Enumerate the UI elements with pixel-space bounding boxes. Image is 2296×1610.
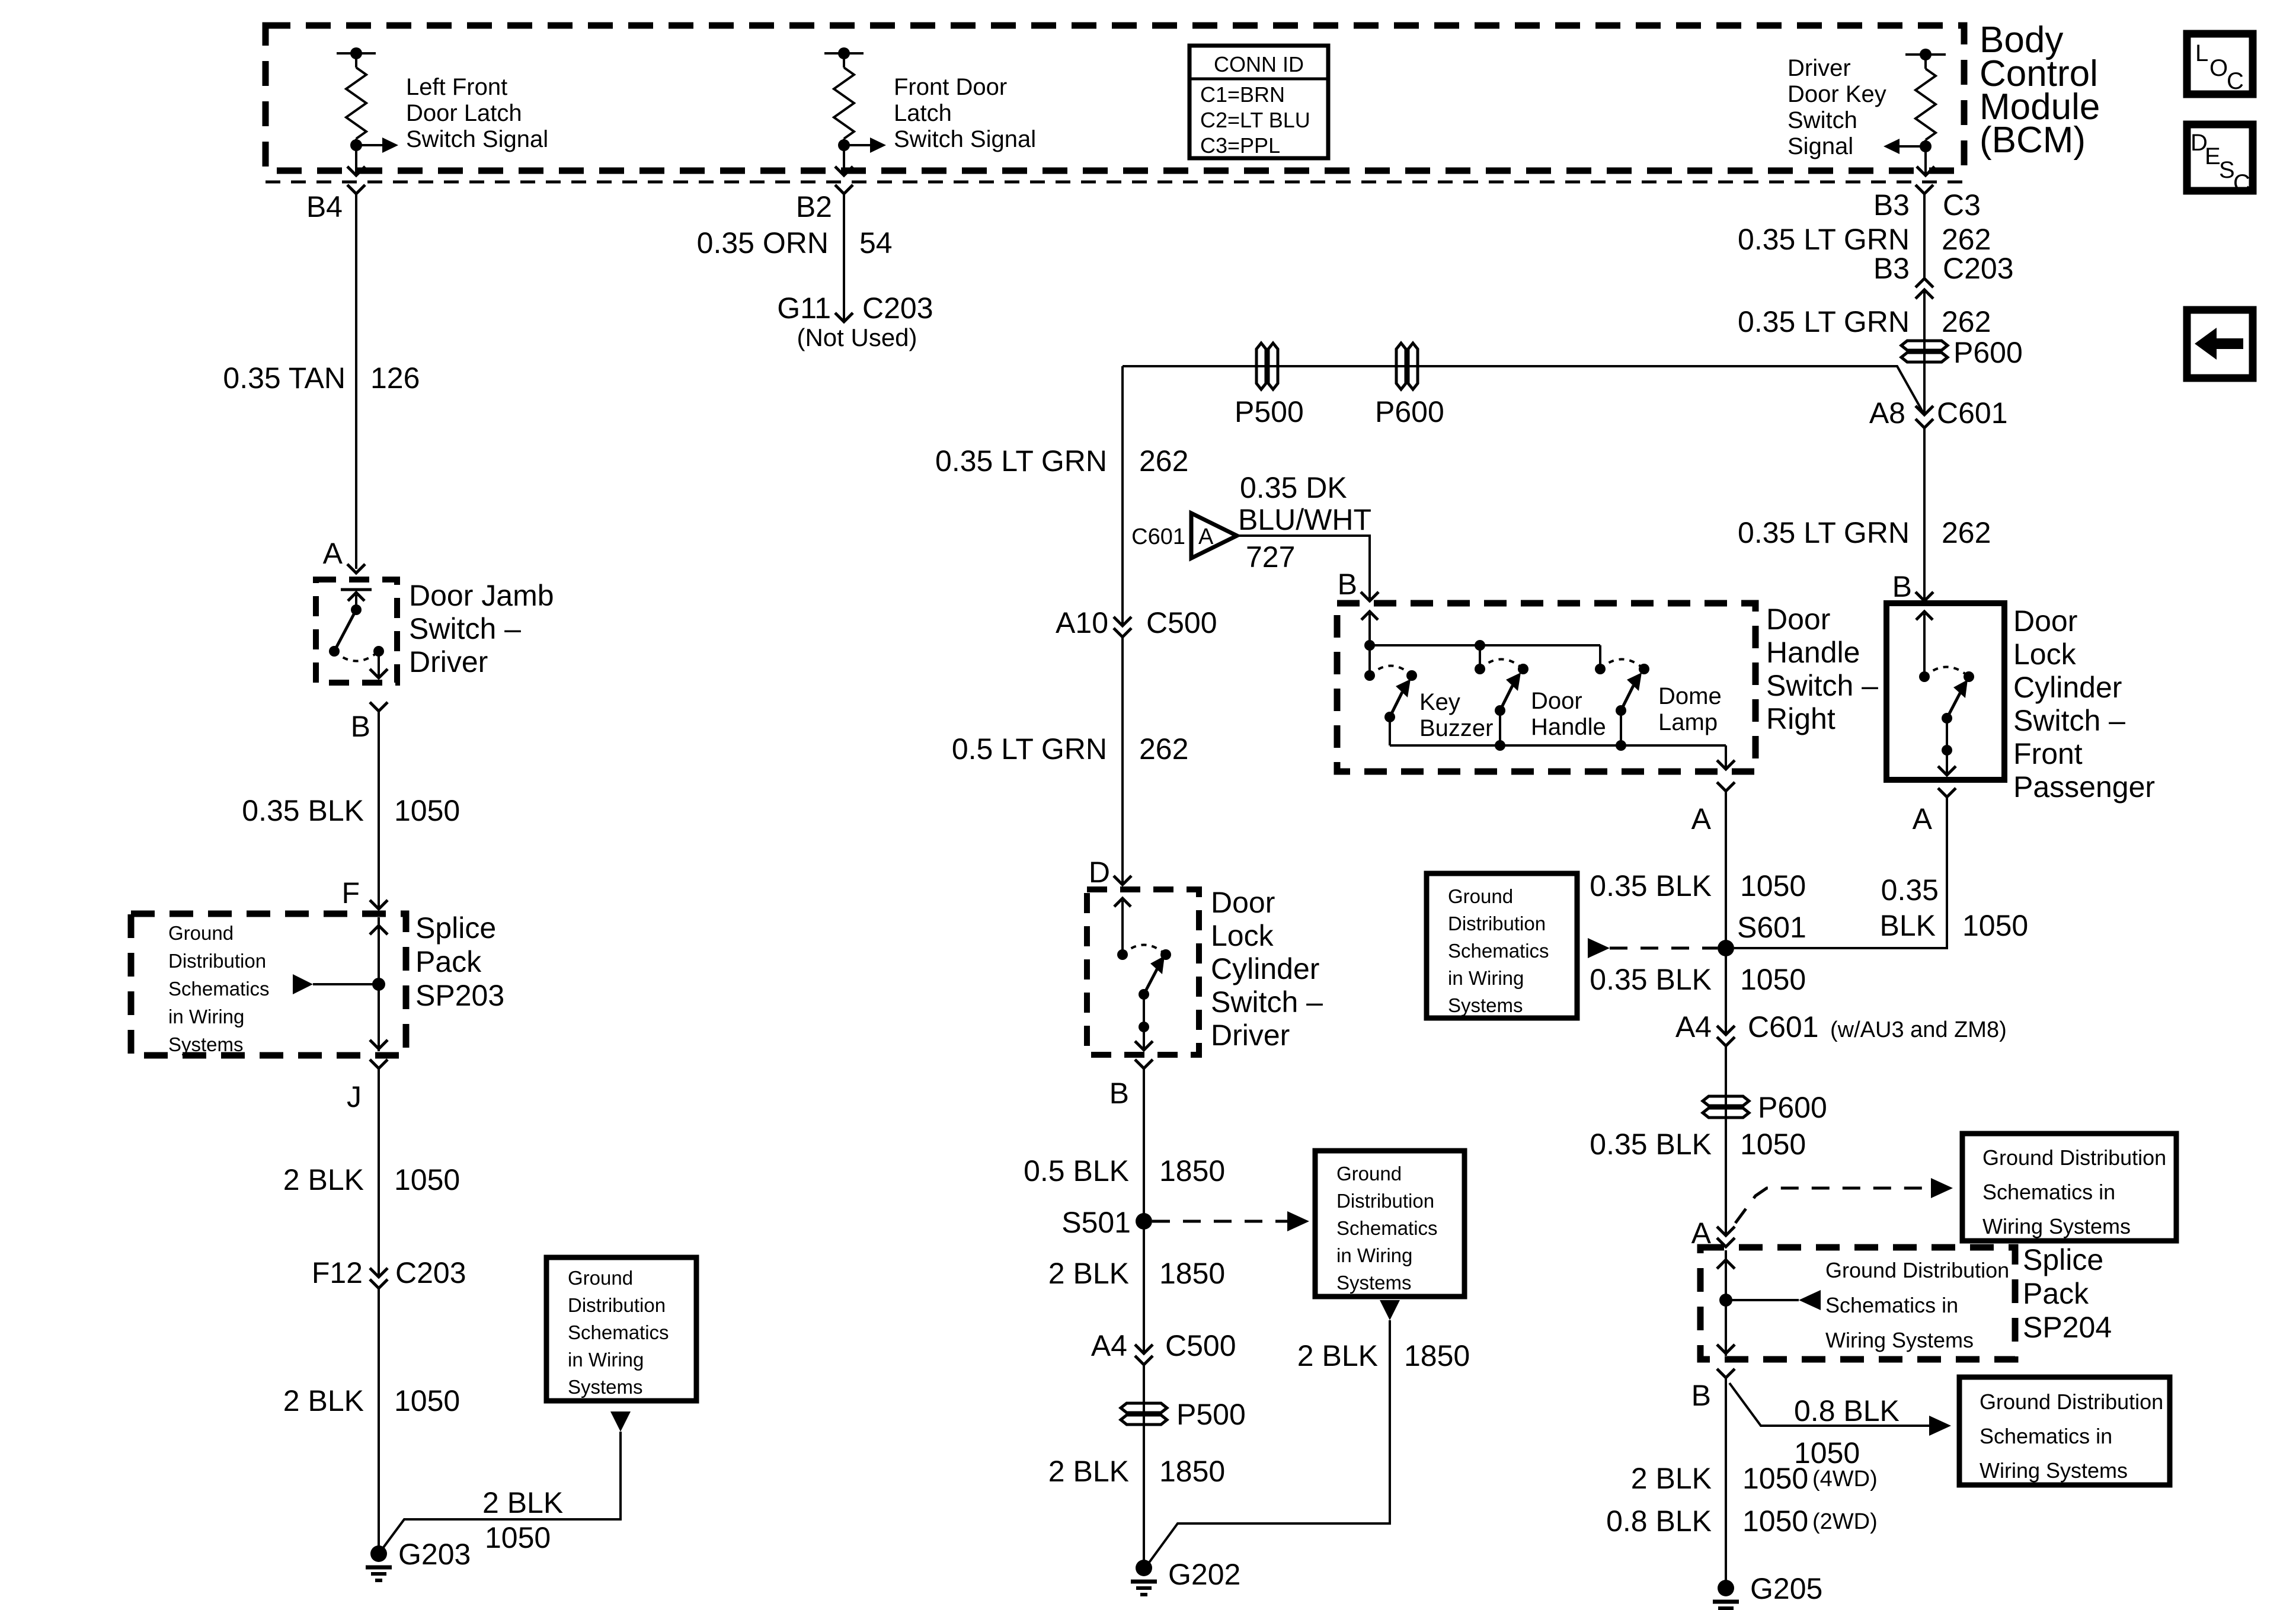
svg-text:262: 262 [1942, 516, 1991, 549]
dashed reference arrow to S601 [1588, 938, 1610, 958]
svg-text:0.8 BLK: 0.8 BLK [1606, 1505, 1712, 1538]
svg-text:1050: 1050 [1740, 963, 1806, 996]
node A below Door Handle Switch [1717, 782, 1735, 791]
SP204 internal wire with arrows and splice junction [1717, 1250, 1821, 1356]
node B below SP204 [1717, 1369, 1735, 1378]
node B below driver lock cylinder [1135, 1060, 1153, 1068]
svg-text:0.35 ORN: 0.35 ORN [697, 226, 829, 260]
svg-text:2 BLK: 2 BLK [283, 1384, 364, 1417]
svg-text:C1=BRN: C1=BRN [1200, 82, 1285, 107]
svg-text:Pack: Pack [2023, 1277, 2089, 1310]
svg-text:Splice: Splice [415, 911, 496, 945]
arrow from ground distribution box (S501) down [1380, 1300, 1400, 1320]
svg-text:Systems: Systems [168, 1033, 244, 1055]
svg-text:P600: P600 [1375, 395, 1444, 428]
svg-text:0.35 LT GRN: 0.35 LT GRN [935, 444, 1107, 478]
door handle switch contacts [1475, 660, 1528, 746]
svg-text:Ground: Ground [1336, 1163, 1402, 1185]
svg-text:Handle: Handle [1531, 714, 1606, 740]
svg-text:(4WD): (4WD) [1812, 1467, 1878, 1491]
svg-text:G205: G205 [1750, 1572, 1822, 1605]
svg-text:Switch Signal: Switch Signal [894, 126, 1036, 152]
svg-text:Handle: Handle [1766, 636, 1860, 669]
svg-text:54: 54 [859, 226, 893, 260]
svg-text:Switch –: Switch – [409, 612, 521, 645]
svg-text:0.5 LT GRN: 0.5 LT GRN [952, 732, 1107, 766]
wire J to F12 (2 BLK 1050) [378, 1068, 380, 1275]
BCM connector thin dashed line [266, 181, 1964, 184]
dome lamp switch contacts [1595, 660, 1649, 746]
internal feed wire and top bus [1361, 612, 1600, 676]
Door Handle Switch - Right dashed box [1337, 603, 1755, 772]
svg-text:C203: C203 [395, 1256, 466, 1289]
svg-text:Distribution: Distribution [568, 1294, 666, 1316]
wire A8 to Door Lock Cylinder Switch (0.35 LT GRN 262) [1923, 428, 1926, 601]
svg-text:(w/AU3 and ZM8): (w/AU3 and ZM8) [1830, 1017, 2007, 1042]
svg-text:1850: 1850 [1159, 1154, 1225, 1188]
svg-text:Wiring Systems: Wiring Systems [1982, 1214, 2131, 1238]
door lock cylinder driver switch contacts [1114, 898, 1171, 1050]
door jamb switch contacts [329, 590, 388, 678]
svg-text:Splice: Splice [2023, 1243, 2103, 1276]
svg-text:Ground: Ground [1448, 885, 1513, 907]
svg-text:A: A [323, 537, 343, 570]
svg-text:P600: P600 [1758, 1091, 1827, 1124]
svg-text:P500: P500 [1235, 395, 1304, 428]
wire B to S501 (0.5 BLK 1850) [1143, 1068, 1145, 1221]
svg-text:B: B [1109, 1077, 1129, 1110]
ground distribution box (right, lower) [1959, 1377, 2170, 1485]
svg-text:A: A [1913, 802, 1933, 836]
in-line connector P500 (vertical wire) [1121, 1403, 1167, 1425]
pin B3 connector at BCM [1916, 185, 1933, 194]
svg-text:0.35 LT GRN: 0.35 LT GRN [1738, 516, 1910, 549]
svg-text:A4: A4 [1675, 1010, 1712, 1044]
wire S501 to A4 (2 BLK 1850) [1143, 1221, 1145, 1353]
branch 0.8 BLK 1050 to ground distribution box [1729, 1383, 1929, 1426]
svg-text:0.35 BLK: 0.35 BLK [1590, 869, 1712, 902]
svg-text:P600: P600 [1953, 336, 2023, 369]
svg-text:C601: C601 [1748, 1010, 1819, 1044]
svg-text:J: J [347, 1080, 362, 1113]
svg-text:CONN ID: CONN ID [1214, 52, 1304, 76]
svg-text:126: 126 [370, 361, 420, 395]
Door Jamb Switch - Driver dashed box [316, 580, 397, 683]
wire C601-A to Door Handle Switch (0.35 DK BLU/WHT 727) [1237, 536, 1370, 598]
svg-text:Front Door: Front Door [894, 74, 1007, 100]
svg-text:727: 727 [1246, 540, 1295, 574]
svg-text:Schematics: Schematics [168, 978, 270, 1000]
svg-text:Wiring Systems: Wiring Systems [1825, 1328, 1974, 1352]
wire bus corner down to A10 (0.35 LT GRN 262) [1121, 366, 1124, 626]
Splice Pack SP203 dashed box [131, 914, 406, 1055]
dashed reference from node A to ground distribution box [1735, 1188, 1931, 1223]
ground G205 [1713, 1580, 1739, 1608]
svg-text:(2WD): (2WD) [1812, 1509, 1878, 1534]
svg-text:Switch: Switch [1787, 107, 1857, 133]
svg-text:0.35 LT GRN: 0.35 LT GRN [1738, 305, 1910, 338]
svg-text:262: 262 [1942, 223, 1991, 256]
svg-text:Switch –: Switch – [2013, 704, 2125, 737]
svg-text:Lamp: Lamp [1658, 709, 1718, 735]
in-line connector P600 (harness pass-through) [1396, 343, 1418, 389]
svg-text:Buzzer: Buzzer [1419, 715, 1494, 741]
svg-text:Driver: Driver [409, 645, 488, 678]
svg-text:0.35 BLK: 0.35 BLK [1590, 963, 1712, 996]
svg-text:Cylinder: Cylinder [1211, 952, 1319, 985]
svg-text:2 BLK: 2 BLK [1048, 1455, 1129, 1488]
svg-text:Ground Distribution: Ground Distribution [1982, 1145, 2166, 1170]
svg-text:0.5 BLK: 0.5 BLK [1024, 1154, 1129, 1188]
svg-text:C3: C3 [1943, 188, 1981, 222]
svg-text:BLK: BLK [1879, 909, 1936, 942]
svg-text:Front: Front [2013, 737, 2083, 770]
svg-text:2 BLK: 2 BLK [1297, 1339, 1378, 1372]
wire A to S601 (0.35 BLK 1050) [1725, 791, 1727, 948]
svg-text:0.35 DK: 0.35 DK [1240, 471, 1347, 504]
svg-text:E: E [2205, 143, 2221, 169]
svg-text:262: 262 [1139, 732, 1188, 766]
svg-text:(BCM): (BCM) [1980, 120, 2086, 161]
svg-text:Distribution: Distribution [1448, 913, 1546, 934]
svg-text:S601: S601 [1737, 911, 1806, 944]
svg-text:S501: S501 [1061, 1206, 1131, 1239]
node A below FP lock cylinder [1938, 788, 1956, 797]
svg-text:Pack: Pack [415, 945, 482, 978]
LOC box [2187, 34, 2253, 94]
Door Lock Cylinder Switch - Front Passenger box [1886, 603, 2004, 780]
svg-text:1850: 1850 [1404, 1339, 1470, 1372]
svg-text:Passenger: Passenger [2013, 770, 2155, 804]
key buzzer switch [1364, 666, 1417, 746]
svg-text:in Wiring: in Wiring [1448, 967, 1524, 989]
svg-text:F12: F12 [312, 1256, 363, 1289]
svg-text:Cylinder: Cylinder [2013, 671, 2122, 704]
svg-text:1050: 1050 [485, 1521, 551, 1554]
svg-text:Door: Door [1766, 603, 1830, 636]
svg-text:B: B [351, 710, 370, 743]
wire B to G205 [1725, 1378, 1727, 1588]
svg-text:C601: C601 [1937, 396, 2008, 430]
svg-text:Schematics: Schematics [568, 1321, 669, 1343]
svg-text:Signal: Signal [1787, 133, 1853, 159]
svg-text:1050: 1050 [394, 794, 460, 827]
svg-text:Driver: Driver [1787, 55, 1851, 81]
svg-text:Door: Door [2013, 604, 2077, 638]
svg-text:Distribution: Distribution [168, 950, 266, 972]
svg-text:C500: C500 [1165, 1329, 1236, 1362]
svg-text:1050: 1050 [1962, 909, 2028, 942]
svg-text:B4: B4 [306, 190, 343, 223]
svg-text:Switch Signal: Switch Signal [406, 126, 548, 152]
svg-text:in Wiring: in Wiring [568, 1349, 644, 1371]
svg-text:Schematics: Schematics [1448, 940, 1549, 962]
svg-text:0.35 TAN: 0.35 TAN [223, 361, 346, 395]
internal bottom bus and exit [1390, 740, 1735, 769]
in-line connector P600 (vertical wire, right column top) [1901, 341, 1948, 362]
horizontal wire bus 262 circuit [1123, 366, 1924, 415]
svg-text:in Wiring: in Wiring [1336, 1244, 1412, 1266]
svg-text:1850: 1850 [1159, 1455, 1225, 1488]
resistor R-right (Driver Door Key Switch Signal) [1884, 49, 1946, 175]
svg-text:Door Key: Door Key [1787, 81, 1886, 107]
svg-text:B3: B3 [1873, 188, 1910, 222]
svg-text:2 BLK: 2 BLK [283, 1163, 364, 1196]
svg-text:in Wiring: in Wiring [168, 1006, 244, 1028]
svg-text:A8: A8 [1869, 396, 1905, 430]
wire A to S601 (0.35 BLK 1050) [1734, 797, 1947, 948]
svg-text:Systems: Systems [1336, 1272, 1412, 1294]
svg-text:C: C [2227, 68, 2244, 94]
svg-text:1050: 1050 [1740, 869, 1806, 902]
svg-text:O: O [2209, 55, 2228, 81]
splice S501 [1136, 1213, 1152, 1230]
svg-text:Left Front: Left Front [406, 74, 507, 100]
svg-text:B: B [1892, 570, 1912, 603]
CONN ID table [1189, 46, 1328, 158]
svg-text:1050: 1050 [394, 1163, 460, 1196]
svg-text:1050: 1050 [1742, 1505, 1808, 1538]
svg-text:A: A [1691, 802, 1712, 836]
Door Lock Cylinder Switch - Driver dashed box [1087, 889, 1199, 1055]
svg-text:A: A [1198, 524, 1214, 549]
svg-text:Ground Distribution: Ground Distribution [1825, 1258, 2009, 1282]
dashed reference line S501 to ground distribution box [1152, 1220, 1287, 1223]
svg-text:Ground Distribution: Ground Distribution [1980, 1390, 2163, 1414]
wire A4 to P600 [1725, 1046, 1727, 1235]
Splice Pack SP204 dashed box [1700, 1247, 2015, 1359]
svg-text:Schematics in: Schematics in [1980, 1424, 2112, 1448]
svg-text:Driver: Driver [1211, 1019, 1290, 1052]
svg-text:C500: C500 [1146, 606, 1217, 639]
ground distribution box (right, upper) [1962, 1134, 2176, 1241]
svg-text:C: C [2233, 170, 2250, 196]
svg-text:1050: 1050 [394, 1384, 460, 1417]
svg-text:B: B [1691, 1379, 1711, 1412]
svg-text:SP203: SP203 [415, 979, 504, 1012]
svg-text:P500: P500 [1176, 1398, 1246, 1431]
svg-text:C203: C203 [1943, 252, 2014, 285]
svg-text:Latch: Latch [894, 100, 952, 126]
svg-text:Schematics in: Schematics in [1825, 1293, 1958, 1317]
svg-text:Distribution: Distribution [1336, 1190, 1434, 1212]
svg-text:1050: 1050 [1740, 1128, 1806, 1161]
wire B to F (0.35 BLK 1050) [378, 711, 380, 909]
svg-text:G202: G202 [1168, 1558, 1240, 1591]
svg-text:2 BLK: 2 BLK [482, 1486, 563, 1519]
svg-text:Door: Door [1531, 688, 1582, 714]
svg-text:Wiring Systems: Wiring Systems [1980, 1458, 2128, 1483]
svg-text:C203: C203 [862, 292, 933, 325]
svg-text:C601: C601 [1131, 524, 1185, 549]
svg-text:Lock: Lock [1211, 919, 1274, 952]
svg-text:0.35 BLK: 0.35 BLK [1590, 1128, 1712, 1161]
svg-text:Right: Right [1766, 702, 1835, 735]
pin B2 connector at BCM [835, 185, 853, 194]
wire from box to G203 (2 BLK 1050) [380, 1432, 621, 1551]
svg-text:F: F [341, 876, 360, 910]
back-arrow box [2187, 310, 2253, 378]
svg-text:D: D [1089, 856, 1110, 889]
connector C601 pin A triangle [1131, 513, 1237, 558]
svg-text:Schematics in: Schematics in [1982, 1180, 2115, 1204]
svg-text:BLU/WHT: BLU/WHT [1238, 503, 1371, 536]
wire B3 to C203 (0.35 LT GRN 262) [1923, 194, 1926, 279]
ground G202 [1131, 1560, 1157, 1595]
svg-text:Key: Key [1419, 689, 1460, 715]
svg-text:Dome: Dome [1658, 683, 1722, 709]
ground distribution box (bottom left) [546, 1257, 696, 1401]
wire B4 to Door Jamb Switch (0.35 TAN 126) [355, 194, 357, 569]
svg-text:L: L [2195, 40, 2208, 66]
node B below door jamb switch [370, 702, 388, 711]
resistor R-mid (Front Door Latch Switch Signal) [824, 47, 886, 175]
svg-text:Systems: Systems [568, 1376, 643, 1398]
svg-text:1850: 1850 [1159, 1257, 1225, 1290]
svg-text:A4: A4 [1091, 1329, 1127, 1362]
wire ground box to G202 (2 BLK 1850) [1149, 1320, 1390, 1563]
svg-text:B: B [1338, 568, 1357, 601]
resistor R-left (Left Front Door Latch Switch Signal) [337, 47, 398, 175]
svg-text:Schematics: Schematics [1336, 1217, 1438, 1239]
svg-text:0.35 BLK: 0.35 BLK [242, 794, 364, 827]
in-line connector P500 (harness pass-through) [1256, 343, 1278, 389]
svg-text:0.35: 0.35 [1881, 873, 1939, 907]
svg-text:Door Latch: Door Latch [406, 100, 522, 126]
svg-text:Door Jamb: Door Jamb [409, 579, 554, 612]
wire A4 to P500 [1143, 1365, 1145, 1568]
svg-text:0.8 BLK: 0.8 BLK [1794, 1394, 1900, 1427]
svg-text:C2=LT BLU: C2=LT BLU [1200, 108, 1310, 132]
svg-text:1050: 1050 [1742, 1462, 1808, 1495]
wire A10 to D (0.5 LT GRN 262) [1121, 637, 1124, 885]
svg-text:SP204: SP204 [2023, 1311, 2112, 1344]
ground G203 [366, 1545, 392, 1580]
wire S601 to A4 (0.35 BLK 1050) [1725, 948, 1727, 1035]
ground distribution box (S501) [1315, 1151, 1464, 1297]
wire F12 to G203 (2 BLK 1050) [378, 1288, 380, 1554]
svg-text:G11: G11 [777, 292, 831, 325]
svg-text:Door: Door [1211, 886, 1275, 919]
svg-text:Ground: Ground [568, 1267, 633, 1289]
svg-text:0.35 LT GRN: 0.35 LT GRN [1738, 223, 1910, 256]
DESC box [2187, 124, 2253, 196]
svg-text:S: S [2219, 157, 2235, 183]
node J below SP203 [370, 1060, 388, 1068]
svg-text:Switch –: Switch – [1766, 669, 1878, 702]
svg-text:B3: B3 [1873, 252, 1910, 285]
svg-text:2 BLK: 2 BLK [1048, 1257, 1129, 1290]
svg-text:Systems: Systems [1448, 994, 1523, 1016]
wire C203 to P600 (0.35 LT GRN 262) [1923, 290, 1926, 415]
in-line connector P600 (vertical wire, right column bottom) [1703, 1096, 1749, 1118]
svg-text:Ground: Ground [168, 922, 234, 944]
front passenger lock cylinder switch contacts [1916, 612, 1974, 775]
svg-text:G203: G203 [398, 1538, 471, 1571]
splice S601 [1718, 940, 1734, 956]
Body Control Module (BCM) dashed box [266, 25, 1964, 171]
ground distribution box (S601) [1427, 873, 1577, 1018]
svg-text:B2: B2 [796, 190, 832, 223]
svg-text:Lock: Lock [2013, 638, 2077, 671]
SP203 internal wire with arrows and splice junction [293, 917, 388, 1051]
svg-text:2 BLK: 2 BLK [1631, 1462, 1712, 1495]
svg-text:Switch –: Switch – [1211, 985, 1323, 1019]
svg-text:A10: A10 [1056, 606, 1108, 639]
arrow from ground distribution box down [610, 1411, 631, 1432]
svg-text:262: 262 [1942, 305, 1991, 338]
wire B2 (0.35 ORN 54) not used [843, 194, 845, 322]
svg-text:262: 262 [1139, 444, 1188, 478]
svg-text:(Not Used): (Not Used) [797, 324, 917, 351]
pin B4 connector at BCM [347, 185, 365, 194]
svg-text:C3=PPL: C3=PPL [1200, 133, 1280, 158]
